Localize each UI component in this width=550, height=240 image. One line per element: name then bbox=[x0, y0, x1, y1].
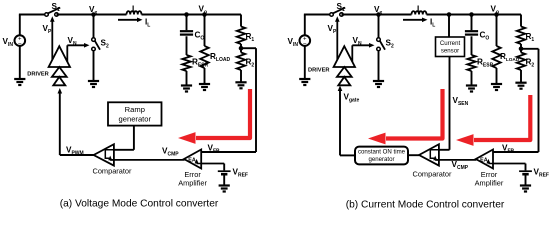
ground under S2 (a) bbox=[88, 81, 99, 87]
ground under Resr (a) bbox=[181, 86, 192, 92]
wire comparator output to constant ON time generator (b) bbox=[408, 154, 419, 156]
wire Vo to Rload (b) bbox=[496, 15, 498, 47]
red current feedback arrow (b) bbox=[368, 89, 443, 144]
ground under Rload (b) bbox=[491, 84, 502, 90]
svg-text:generator: generator bbox=[119, 115, 152, 124]
wire feedback tap to VFB riser (a) bbox=[241, 47, 256, 49]
wire VFB riser (b) bbox=[538, 49, 540, 152]
node Vx (a) bbox=[91, 12, 96, 17]
wire VSEN current sensor to comparator (b) bbox=[439, 57, 450, 150]
svg-text:Amplifier: Amplifier bbox=[475, 178, 504, 187]
wire S2 to ground (a) bbox=[93, 51, 95, 81]
svg-text:constant ON time: constant ON time bbox=[358, 149, 406, 156]
svg-text:DRIVER: DRIVER bbox=[308, 68, 330, 74]
wire Vx to inductor (b) bbox=[379, 14, 412, 16]
resistor R1 (a) bbox=[237, 27, 245, 45]
ground under VIN (b) bbox=[299, 79, 310, 85]
wire rail to Co (b) bbox=[471, 15, 473, 31]
inductor current arrow IL (b) bbox=[403, 18, 428, 23]
wire rail corner down to R1 (b) bbox=[520, 15, 522, 27]
wire VFB into error amplifier (b) bbox=[493, 151, 539, 153]
switch S2 (a) bbox=[92, 38, 100, 51]
wire Co to Resr (a) bbox=[186, 36, 188, 55]
wire R2 to ground (a) bbox=[240, 70, 242, 82]
driver buffer stack (b) bbox=[334, 46, 355, 85]
gate signal VP arrow (b) bbox=[335, 16, 340, 60]
wire VFB into error amplifier (a) bbox=[201, 151, 256, 153]
wire feedback tap to VFB riser (b) bbox=[521, 48, 539, 50]
wire Rload to ground (a) bbox=[204, 68, 206, 84]
voltage source VIN (b) bbox=[300, 15, 311, 80]
ground under R2 (b) bbox=[515, 83, 526, 89]
svg-text:EA: EA bbox=[188, 157, 196, 163]
label Error Amplifier (b) bbox=[475, 170, 504, 188]
wire S2 to ground (b) bbox=[378, 51, 380, 81]
svg-text:Amplifier: Amplifier bbox=[178, 178, 207, 187]
switch S2 (b) bbox=[377, 38, 385, 51]
switch S1 (b) bbox=[330, 8, 346, 17]
wire node to current sensor box (b) bbox=[448, 15, 450, 38]
error amplifier reference input arrow (b) bbox=[486, 159, 493, 164]
wire Vx to inductor (a) bbox=[94, 14, 127, 16]
wire error amp to VREF (a) bbox=[201, 164, 224, 171]
wire VCMP error amp output to comparator (a) bbox=[110, 159, 184, 161]
resistor R2 (a) bbox=[237, 53, 245, 71]
driver buffer stack (a) bbox=[49, 46, 70, 85]
node Vo (b) bbox=[494, 12, 499, 17]
wire top rail VIN to S1 (a) bbox=[19, 14, 47, 16]
svg-text:Current: Current bbox=[440, 40, 461, 47]
constant ON time generator box (b) bbox=[355, 147, 408, 165]
ground under Resr (b) bbox=[466, 86, 477, 92]
wire top rail VIN to S1 (b) bbox=[304, 14, 332, 16]
reference source VREF battery (a) bbox=[218, 171, 231, 174]
wire R2 to ground (b) bbox=[520, 70, 522, 83]
wire VREF to ground (a) bbox=[223, 175, 225, 186]
red feedback path arrow (a) bbox=[178, 89, 250, 144]
node at Co branch (a) bbox=[184, 12, 189, 17]
svg-text:L: L bbox=[417, 5, 422, 14]
red voltage feedback arrow (b) bbox=[456, 95, 530, 146]
resistor R1 (b) bbox=[517, 27, 525, 45]
svg-text:(a) Voltage Mode Control conve: (a) Voltage Mode Control converter bbox=[60, 199, 219, 210]
wire ramp generator to comparator input (a) bbox=[114, 126, 134, 150]
label Error Amplifier (a) bbox=[178, 170, 207, 188]
svg-text:Comparator: Comparator bbox=[412, 170, 452, 179]
wire Resr to ground (b) bbox=[471, 71, 473, 86]
ground under Rload (a) bbox=[199, 84, 210, 90]
wire Vo to Rload (a) bbox=[204, 15, 206, 47]
gate signal VN wire and arrow (b) bbox=[352, 43, 374, 62]
voltage source VIN (a) bbox=[14, 15, 25, 80]
capacitor Co (a) bbox=[180, 31, 193, 34]
wire Vx down to S2 (a) bbox=[93, 15, 95, 38]
node at Co branch (b) bbox=[469, 12, 474, 17]
wire inductor to output rail (a) bbox=[142, 14, 242, 16]
resistor Rload (a) bbox=[200, 46, 208, 68]
svg-text:EA: EA bbox=[480, 157, 488, 163]
gate signal VN wire and arrow (a) bbox=[67, 43, 89, 62]
ramp generator box (a) bbox=[108, 102, 162, 125]
ground under S2 (b) bbox=[373, 81, 384, 87]
ground under VREF (a) bbox=[219, 186, 230, 192]
wire VREF to ground (b) bbox=[525, 175, 527, 186]
node inductor to current sensor (b) bbox=[447, 12, 452, 17]
svg-text:generator: generator bbox=[368, 156, 394, 163]
node feedback divider tap (b) bbox=[519, 47, 524, 52]
reference source VREF battery (b) bbox=[519, 171, 532, 174]
comparator U1 (a) bbox=[94, 144, 114, 165]
svg-text:L: L bbox=[132, 5, 137, 14]
node Vo (a) bbox=[202, 12, 207, 17]
svg-text:DRIVER: DRIVER bbox=[27, 72, 49, 78]
wire VCMP error amp output to comparator (b) bbox=[435, 159, 476, 161]
svg-text:sensor: sensor bbox=[441, 47, 459, 54]
ramp waveform symbol inside comparator (b) bbox=[430, 150, 438, 158]
ground under R2 (a) bbox=[235, 82, 246, 88]
resistor Rload (b) bbox=[492, 46, 500, 68]
wire rail corner down to R1 (a) bbox=[240, 15, 242, 27]
inductor L (a) bbox=[127, 11, 142, 14]
ground under VIN (a) bbox=[14, 79, 25, 85]
wire S1 to Vx (b) bbox=[342, 14, 379, 16]
svg-text:(b) Current Mode Control conve: (b) Current Mode Control converter bbox=[346, 200, 505, 211]
svg-text:Ramp: Ramp bbox=[125, 105, 145, 114]
wire VPWM comparator output to driver (a) bbox=[58, 88, 94, 155]
svg-text:Comparator: Comparator bbox=[92, 167, 132, 176]
error amplifier reference input arrow (a) bbox=[195, 159, 202, 164]
wire Vx down to S2 (b) bbox=[378, 15, 380, 38]
ground under VREF (b) bbox=[520, 186, 531, 192]
resistor Resr (a) bbox=[182, 55, 190, 71]
wire VFB riser (a) bbox=[255, 48, 257, 152]
wire Rload to ground (b) bbox=[496, 68, 498, 84]
inductor current arrow IL (a) bbox=[118, 18, 143, 23]
wire Co to Resr (b) bbox=[471, 36, 473, 55]
resistor Resr (b) bbox=[467, 55, 475, 71]
error amplifier EA (a) bbox=[184, 150, 201, 169]
comparator inverting input arrow (b) bbox=[433, 156, 439, 161]
node feedback divider tap (a) bbox=[239, 46, 244, 51]
inductor L (b) bbox=[412, 11, 427, 14]
gate signal VP arrow (a) bbox=[50, 16, 55, 60]
wire Resr to ground (a) bbox=[186, 71, 188, 86]
error amplifier EA (b) bbox=[476, 150, 493, 169]
wire error amp to VREF (b) bbox=[493, 164, 526, 171]
comparator inverting input arrow (a) bbox=[108, 156, 114, 161]
comparator U2 (b) bbox=[419, 144, 439, 165]
switch S1 (a) bbox=[45, 8, 61, 17]
wire Vgate constant ON time generator to driver (b) bbox=[338, 86, 355, 156]
wire S1 to Vx (a) bbox=[57, 14, 94, 16]
wire R1 to R2 with feedback node (a) bbox=[240, 44, 242, 53]
node Vx (b) bbox=[376, 12, 381, 17]
resistor R2 (b) bbox=[517, 53, 525, 71]
wire rail to Co (a) bbox=[186, 15, 188, 31]
ramp waveform symbol inside comparator (a) bbox=[105, 150, 113, 158]
capacitor Co (b) bbox=[465, 31, 478, 34]
current sensor box (b) bbox=[436, 37, 465, 57]
wire inductor to output rail (b) bbox=[427, 14, 522, 16]
wire R1 to R2 with feedback node (b) bbox=[520, 44, 522, 53]
